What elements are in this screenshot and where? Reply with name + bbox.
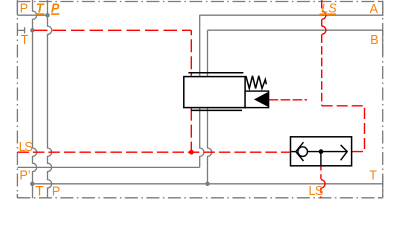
shuttle left inlet line	[291, 151, 296, 153]
svg-text:P: P	[20, 2, 28, 16]
wire T gallery horizontal	[32, 183, 382, 185]
red pilot line from compensator pilot box	[269, 99, 307, 101]
label LS top underline	[320, 13, 337, 15]
enclosure border right	[382, 2, 384, 198]
compensator stroke bar bottom	[191, 109, 242, 111]
svg-text:A: A	[370, 2, 379, 16]
svg-text:B: B	[370, 33, 378, 47]
wire B riser upper	[207, 30, 209, 76]
border corner solid pieces	[17, 2, 382, 198]
shuttle ball circle	[298, 147, 308, 157]
wire P top port vertical	[16, 0, 18, 15]
wire B gallery horizontal	[208, 29, 383, 31]
label T top underline	[36, 13, 45, 15]
red pilot line from T tap horizontal	[34, 29, 191, 31]
svg-text:LS: LS	[19, 140, 33, 154]
node junction dot B riser T gallery	[205, 182, 209, 186]
svg-text:P: P	[51, 1, 60, 15]
svg-text:LS: LS	[309, 184, 323, 198]
red LS gallery horizontal	[17, 151, 290, 153]
wire A gallery horizontal	[200, 14, 383, 16]
wire T riser x=32.5 with crossing hops	[33, 0, 37, 198]
wire right border solid at T gallery	[382, 176, 384, 198]
shuttle valve body rectangle	[291, 137, 352, 166]
wire B riser lower with hop	[208, 108, 212, 184]
red LS link to shuttle right: over and down	[322, 106, 365, 152]
shuttle output down line	[320, 152, 322, 166]
red LS top riser with hops	[321, 0, 323, 106]
shuttle center line	[308, 151, 348, 153]
wire P' gallery horizontal	[17, 166, 199, 168]
svg-text:P: P	[52, 185, 60, 199]
svg-text:T: T	[369, 169, 377, 183]
node red junction dot LS gallery	[189, 150, 194, 155]
svg-text:T: T	[35, 183, 44, 199]
svg-text:T: T	[21, 33, 29, 47]
shuttle right arrow	[341, 145, 348, 160]
compensator pilot triangle	[255, 93, 268, 107]
wire B along right border solid	[382, 30, 384, 55]
compensator spring	[246, 76, 266, 89]
node junction dot T pilot tap	[30, 28, 34, 32]
compensator stroke bar top	[188, 72, 243, 74]
node junction dot T gallery left	[30, 182, 34, 186]
plugged T stub on left border	[17, 27, 24, 33]
red pilot riser upper	[190, 30, 192, 76]
wire P riser x=47.5 with crossing hops	[48, 0, 52, 198]
wire A riser lower with hop, corner to P' gallery	[200, 108, 204, 168]
node shuttle output dot	[319, 149, 324, 154]
enclosure border left	[16, 2, 18, 198]
compensator pilot box	[245, 91, 269, 108]
wire P top link horizontal	[17, 14, 47, 16]
red pilot riser lower	[190, 108, 192, 153]
svg-text:P’: P’	[20, 169, 31, 183]
red LS bottom port line with hop	[320, 166, 322, 199]
enclosure border bottom	[17, 197, 382, 199]
label P top underline	[51, 13, 60, 15]
wire A riser upper	[199, 15, 201, 77]
compensator valve body rectangle	[184, 77, 245, 108]
node junction dot P top	[45, 13, 49, 17]
wire A port exit top right	[382, 1, 384, 16]
enclosure border top	[17, 1, 382, 3]
shuttle left seat chevron	[296, 142, 304, 161]
